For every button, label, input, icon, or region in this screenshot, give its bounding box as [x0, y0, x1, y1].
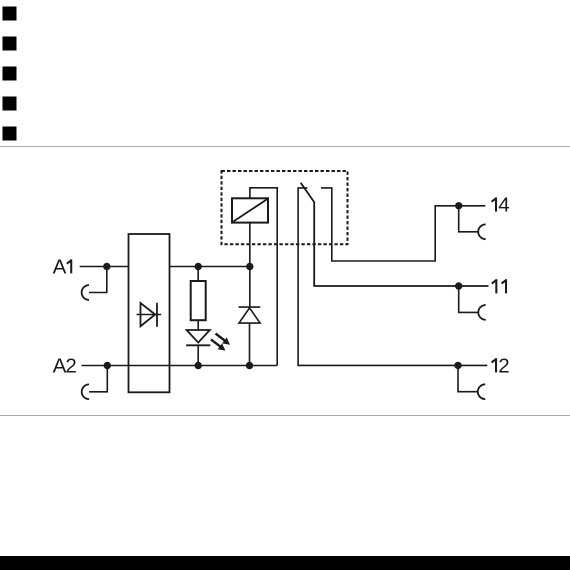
wire node to resistor	[197, 267, 199, 282]
svg-text:A: A	[53, 255, 67, 278]
wire resistor to LED	[197, 320, 199, 330]
wire clamp stub 11	[459, 286, 479, 312]
resistor R1	[191, 281, 206, 320]
LED arrow 1	[222, 337, 230, 344]
wire LED to A2 rail	[197, 345, 199, 365]
LED V1 cathode bar	[186, 344, 210, 346]
wire clamp stub A1	[89, 267, 107, 293]
contact 12 fixed contact and wire to terminal 12	[298, 188, 487, 366]
LED arrow 2	[218, 343, 226, 350]
svg-text:4: 4	[498, 194, 509, 217]
left margin square 4	[3, 97, 17, 111]
node coil-bottom junction dot	[246, 263, 253, 270]
clamp contact A2	[82, 384, 89, 399]
node LED-bottom junction dot	[195, 362, 202, 369]
node diode-bottom junction dot	[246, 362, 253, 369]
wire input block to coil node	[170, 266, 250, 268]
node resistor-top junction dot	[195, 263, 202, 270]
block diode D1 wire	[137, 314, 162, 316]
wire A2 rail	[82, 365, 278, 367]
wire A1 to input block	[80, 266, 129, 268]
label 11	[492, 279, 507, 293]
wire clamp stub 12	[458, 365, 478, 391]
node terminal 14 junction dot	[455, 202, 462, 209]
svg-text:2: 2	[498, 354, 509, 377]
freewheel diode D2 triangle	[239, 308, 260, 323]
label 14	[492, 194, 510, 217]
contact arm pole wire to terminal 11	[301, 183, 489, 286]
node terminal 11 junction dot	[455, 282, 462, 289]
label A2	[53, 354, 77, 377]
block diode D1 triangle	[141, 303, 156, 326]
clamp contact 14	[478, 224, 485, 239]
block diode D1 cathode bar	[156, 303, 158, 327]
LED V1 triangle	[187, 330, 210, 343]
clamp contact 11	[478, 305, 485, 320]
relay dashed box	[222, 171, 348, 244]
label 12	[492, 354, 510, 377]
wire diode D2 to A2 rail	[249, 323, 251, 365]
clamp contact A1	[82, 285, 89, 300]
top hairline	[0, 146, 570, 147]
freewheel diode D2 cathode bar	[239, 306, 261, 308]
wire coil return staircase	[250, 188, 277, 366]
left margin square 3	[3, 67, 17, 81]
node A1 junction dot	[103, 263, 110, 270]
input block U1	[129, 234, 170, 392]
node terminal 12 junction dot	[454, 362, 461, 369]
bottom hairline	[0, 415, 570, 416]
relay coil K1 diagonal	[233, 199, 267, 222]
left margin square 2	[3, 37, 17, 51]
footer bar	[0, 556, 570, 570]
label A1	[53, 255, 73, 278]
svg-text:2: 2	[65, 354, 76, 377]
wire clamp stub 14	[459, 206, 479, 232]
contact 14 fixed contact and wire to terminal 14	[321, 188, 485, 261]
content band (white page strip)	[0, 147, 570, 415]
relay coil K1	[232, 198, 268, 222]
wire clamp stub A2	[89, 366, 107, 392]
node A2 junction dot	[104, 362, 111, 369]
left margin square 5	[3, 127, 17, 141]
clamp contact 12	[478, 384, 485, 399]
left margin square 1	[3, 7, 17, 21]
wire coil node down	[249, 222, 251, 307]
